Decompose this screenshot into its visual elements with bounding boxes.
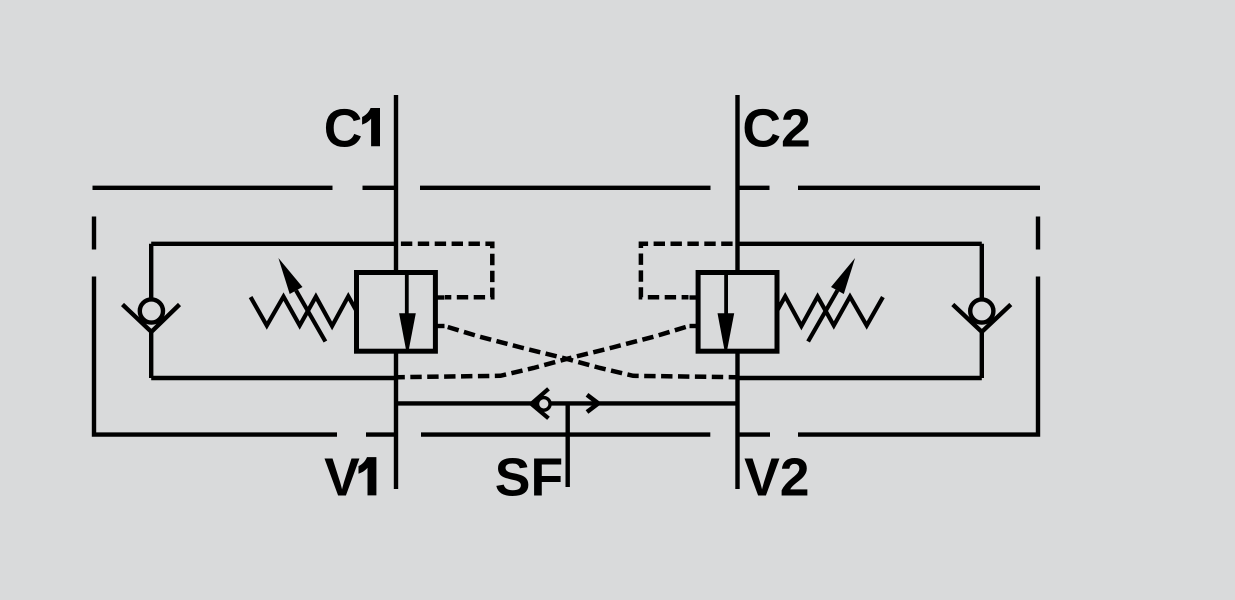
manifold boundary left short dash — [92, 217, 96, 250]
svg-text:V: V — [324, 448, 360, 507]
check valve CV2 seat — [953, 305, 1011, 332]
pilot cross line from left valve — [445, 326, 736, 377]
pilot line left loop dashed — [396, 244, 492, 297]
valve left flow arrow — [399, 313, 416, 349]
port label V1 digit 1 — [359, 457, 377, 495]
svg-text:C2: C2 — [742, 99, 810, 158]
manifold boundary right short dash — [1036, 217, 1040, 250]
pilot line right loop dashed — [641, 244, 738, 297]
manifold boundary top dash 2 — [363, 186, 399, 190]
wire right loop vertical upper — [980, 244, 984, 312]
check valve CV1 ball — [140, 299, 163, 322]
wire C1-V1 main vertical lower — [394, 350, 398, 490]
wire right loop bottom — [738, 376, 982, 380]
check valve CV2 ball — [970, 299, 993, 322]
valve right pilot stub upper — [690, 295, 699, 299]
wire left loop bottom — [151, 376, 396, 380]
wire right loop top — [738, 242, 982, 246]
wire left loop vertical upper — [149, 244, 153, 312]
wire right loop vertical lower — [980, 330, 984, 378]
svg-text:V2: V2 — [744, 448, 809, 507]
spring left zigzag — [251, 296, 357, 326]
wire C2-V2 main vertical upper — [735, 95, 739, 274]
manifold boundary top dash 5 — [798, 186, 1040, 190]
pilot cross line from right valve — [398, 326, 689, 377]
counterbalance valve body left — [357, 273, 436, 352]
valve right pilot stub lower — [690, 324, 699, 328]
valve left pilot stub lower — [435, 324, 444, 328]
wire V1-V2 bottom cross line — [396, 401, 738, 405]
manifold boundary top dash 1 — [93, 186, 333, 190]
svg-text:C: C — [324, 99, 363, 158]
manifold boundary bottom dash 4 — [736, 432, 771, 436]
wire left loop vertical lower — [149, 330, 153, 378]
wire SF branch vertical — [566, 403, 570, 487]
svg-text:SF: SF — [495, 448, 563, 507]
manifold boundary bottom dash 3 — [421, 432, 710, 436]
valve left pilot stub upper — [435, 295, 444, 299]
adjuster arrow left shaft — [296, 291, 325, 342]
valve right flow path line — [724, 273, 728, 316]
spring right zigzag — [777, 296, 883, 326]
flow direction arrow on V1-V2 line — [587, 395, 598, 412]
shuttle check valve SF seat — [531, 389, 548, 419]
adjuster arrow left head — [278, 258, 302, 294]
manifold boundary top dash 3 — [420, 186, 711, 190]
wire left loop top — [151, 242, 396, 246]
counterbalance valve body right — [698, 273, 777, 352]
shuttle check valve SF ball — [538, 398, 551, 411]
manifold boundary bottom dash 2 — [366, 432, 398, 436]
port label C1 digit 1 — [362, 108, 380, 146]
check valve CV1 seat — [123, 305, 180, 332]
manifold boundary right corner segment — [798, 277, 1038, 435]
wire C1-V1 main vertical upper — [394, 95, 398, 274]
adjuster arrow right shaft — [808, 291, 837, 342]
adjuster arrow right head — [831, 258, 855, 294]
manifold boundary left corner segment — [94, 277, 337, 435]
valve left flow path line — [405, 273, 409, 316]
valve right flow arrow — [718, 313, 735, 349]
wire C2-V2 main vertical lower — [735, 350, 739, 490]
manifold boundary top dash 4 — [736, 186, 770, 190]
